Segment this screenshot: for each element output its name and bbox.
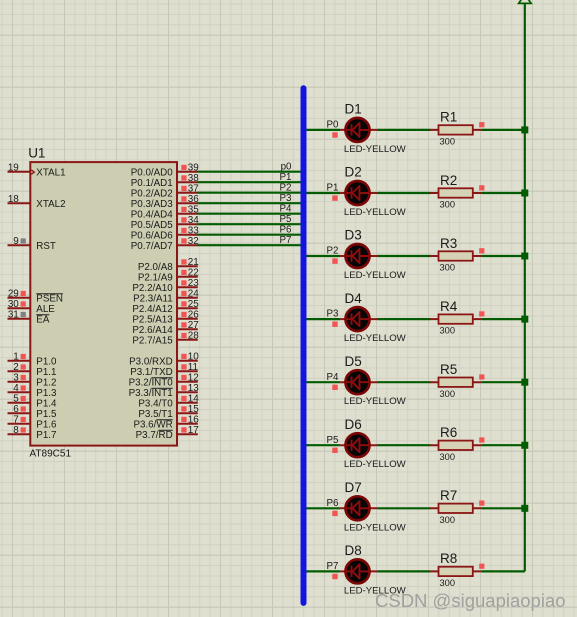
- svg-text:P3.5/T1: P3.5/T1: [138, 409, 172, 420]
- svg-text:1: 1: [13, 352, 19, 363]
- svg-text:P0.3/AD3: P0.3/AD3: [131, 199, 173, 210]
- svg-text:39: 39: [188, 163, 199, 174]
- svg-text:D1: D1: [345, 102, 362, 117]
- svg-text:P2.5/A13: P2.5/A13: [132, 314, 173, 325]
- svg-text:XTAL2: XTAL2: [36, 199, 65, 210]
- svg-text:P2.2/A10: P2.2/A10: [132, 283, 173, 294]
- svg-text:24: 24: [188, 289, 199, 300]
- svg-text:300: 300: [440, 578, 456, 588]
- svg-text:18: 18: [8, 194, 19, 205]
- svg-text:R1: R1: [440, 110, 457, 125]
- svg-text:ALE: ALE: [36, 304, 55, 315]
- svg-text:4: 4: [13, 383, 19, 394]
- svg-text:D7: D7: [345, 480, 362, 495]
- svg-text:D3: D3: [345, 228, 362, 243]
- svg-text:35: 35: [188, 205, 199, 216]
- svg-text:AT89C51: AT89C51: [30, 448, 72, 459]
- svg-text:P1.2: P1.2: [36, 377, 56, 388]
- svg-text:P2.4/A12: P2.4/A12: [132, 304, 172, 315]
- svg-text:23: 23: [188, 278, 199, 289]
- svg-text:P1.3: P1.3: [36, 388, 57, 399]
- svg-text:P6: P6: [327, 498, 340, 509]
- svg-text:R4: R4: [440, 299, 458, 314]
- svg-text:17: 17: [188, 425, 199, 436]
- svg-text:P2: P2: [327, 246, 339, 257]
- svg-text:P5: P5: [280, 214, 293, 225]
- svg-text:LED-YELLOW: LED-YELLOW: [344, 333, 407, 344]
- svg-text:R6: R6: [440, 425, 457, 440]
- svg-text:28: 28: [188, 331, 199, 342]
- svg-text:P3.4/T0: P3.4/T0: [138, 398, 173, 409]
- svg-text:300: 300: [440, 515, 456, 525]
- svg-text:P3: P3: [280, 193, 293, 204]
- svg-text:P0.1/AD1: P0.1/AD1: [131, 178, 173, 189]
- svg-text:P3.6/WR: P3.6/WR: [133, 419, 172, 430]
- svg-text:300: 300: [440, 452, 456, 462]
- svg-text:5: 5: [13, 394, 19, 405]
- svg-text:RST: RST: [36, 241, 56, 252]
- svg-text:13: 13: [188, 383, 199, 394]
- svg-text:LED-YELLOW: LED-YELLOW: [344, 144, 407, 155]
- svg-text:D5: D5: [345, 354, 362, 369]
- svg-text:30: 30: [8, 299, 19, 310]
- svg-text:LED-YELLOW: LED-YELLOW: [344, 270, 407, 281]
- svg-text:LED-YELLOW: LED-YELLOW: [344, 522, 407, 533]
- svg-text:14: 14: [188, 394, 199, 405]
- svg-text:16: 16: [188, 415, 199, 426]
- svg-text:P1.4: P1.4: [36, 398, 57, 409]
- svg-text:P0.6/AD6: P0.6/AD6: [131, 230, 173, 241]
- svg-text:R8: R8: [440, 551, 457, 566]
- svg-text:P1.7: P1.7: [36, 430, 56, 441]
- svg-text:P3.2/INT0: P3.2/INT0: [129, 377, 174, 388]
- svg-text:7: 7: [13, 415, 19, 426]
- svg-text:D6: D6: [345, 417, 362, 432]
- svg-text:26: 26: [188, 310, 199, 321]
- svg-text:32: 32: [188, 236, 199, 247]
- svg-text:300: 300: [440, 200, 456, 210]
- svg-text:12: 12: [188, 373, 199, 384]
- svg-text:300: 300: [440, 326, 456, 336]
- svg-text:R3: R3: [440, 236, 457, 251]
- svg-text:38: 38: [188, 173, 199, 184]
- svg-text:P1.1: P1.1: [36, 367, 56, 378]
- svg-text:LED-YELLOW: LED-YELLOW: [344, 459, 407, 470]
- svg-text:15: 15: [188, 404, 199, 415]
- svg-text:P2.7/A15: P2.7/A15: [132, 335, 173, 346]
- svg-text:2: 2: [13, 362, 19, 373]
- svg-text:D8: D8: [345, 543, 362, 558]
- svg-text:P1.0: P1.0: [36, 356, 57, 367]
- svg-text:D4: D4: [345, 291, 363, 306]
- svg-text:19: 19: [8, 163, 19, 174]
- svg-text:P6: P6: [280, 224, 293, 235]
- svg-text:300: 300: [440, 137, 456, 147]
- svg-text:31: 31: [8, 310, 19, 321]
- svg-text:P0.2/AD2: P0.2/AD2: [131, 188, 173, 199]
- svg-text:33: 33: [188, 226, 199, 237]
- svg-text:P1.6: P1.6: [36, 419, 57, 430]
- svg-text:P3.7/RD: P3.7/RD: [136, 430, 173, 441]
- svg-text:LED-YELLOW: LED-YELLOW: [344, 396, 407, 407]
- svg-text:34: 34: [188, 215, 199, 226]
- svg-text:P0.7/AD7: P0.7/AD7: [131, 241, 173, 252]
- svg-text:P4: P4: [280, 203, 293, 214]
- svg-text:8: 8: [13, 425, 19, 436]
- svg-text:P7: P7: [280, 235, 292, 246]
- svg-text:P1: P1: [327, 183, 339, 194]
- svg-text:P3.3/INT1: P3.3/INT1: [129, 388, 173, 399]
- svg-text:LED-YELLOW: LED-YELLOW: [344, 207, 407, 218]
- svg-text:R2: R2: [440, 173, 457, 188]
- svg-text:9: 9: [13, 236, 19, 247]
- svg-text:P0: P0: [327, 120, 340, 131]
- svg-text:p0: p0: [281, 161, 292, 172]
- svg-text:36: 36: [188, 194, 199, 205]
- svg-text:P0.0/AD0: P0.0/AD0: [131, 167, 173, 178]
- svg-text:P0.5/AD5: P0.5/AD5: [131, 220, 173, 231]
- svg-text:22: 22: [188, 268, 199, 279]
- svg-text:P0.4/AD4: P0.4/AD4: [131, 209, 173, 220]
- svg-text:300: 300: [440, 389, 456, 399]
- svg-text:11: 11: [188, 362, 199, 373]
- svg-text:P1.5: P1.5: [36, 409, 57, 420]
- svg-text:37: 37: [188, 184, 199, 195]
- svg-text:P3.0/RXD: P3.0/RXD: [129, 356, 173, 367]
- svg-text:P7: P7: [327, 561, 339, 572]
- svg-text:29: 29: [8, 289, 19, 300]
- svg-text:U1: U1: [28, 146, 45, 161]
- svg-text:R5: R5: [440, 362, 457, 377]
- svg-text:P5: P5: [327, 435, 340, 446]
- svg-text:6: 6: [13, 404, 19, 415]
- svg-text:P2: P2: [280, 182, 292, 193]
- svg-text:10: 10: [188, 352, 199, 363]
- svg-text:P3.1/TXD: P3.1/TXD: [130, 367, 172, 378]
- svg-text:21: 21: [188, 257, 199, 268]
- svg-text:P2.1/A9: P2.1/A9: [138, 272, 173, 283]
- svg-text:R7: R7: [440, 488, 457, 503]
- svg-text:25: 25: [188, 299, 199, 310]
- svg-text:P2.3/A11: P2.3/A11: [133, 293, 173, 304]
- svg-text:CSDN @siguapiaopiao: CSDN @siguapiaopiao: [375, 590, 566, 611]
- svg-text:EA: EA: [36, 314, 50, 325]
- svg-text:PSEN: PSEN: [36, 293, 63, 304]
- svg-text:P2.0/A8: P2.0/A8: [138, 262, 173, 273]
- svg-text:27: 27: [188, 320, 199, 331]
- svg-text:300: 300: [440, 263, 456, 273]
- svg-text:3: 3: [13, 373, 19, 384]
- svg-text:P4: P4: [327, 372, 340, 383]
- svg-text:P1: P1: [280, 172, 292, 183]
- svg-text:XTAL1: XTAL1: [36, 167, 65, 178]
- svg-text:P3: P3: [327, 309, 340, 320]
- svg-text:D2: D2: [345, 165, 362, 180]
- svg-text:P2.6/A14: P2.6/A14: [132, 325, 173, 336]
